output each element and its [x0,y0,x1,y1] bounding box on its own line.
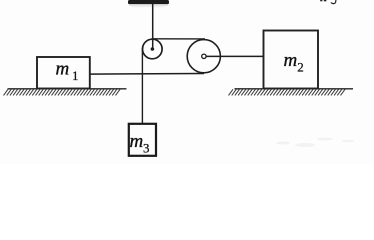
block m1 [37,57,90,89]
ceiling support [128,0,169,7]
text remnant top right [320,0,336,4]
left ground hatching [4,89,121,95]
rope m1 to pulley [90,73,205,76]
right ground hatching [229,89,346,95]
string to m3 [141,49,143,125]
svg-text:m: m [130,131,144,152]
large pulley [187,40,220,73]
svg-text:2: 2 [297,60,304,75]
block m3 [129,124,156,156]
pulley support rod [152,4,154,50]
rope pulley axle to m2 [204,55,264,57]
svg-text:1: 1 [72,68,79,83]
svg-text:m: m [56,59,70,80]
faint smudges bottom right [276,138,354,148]
block m2 [264,31,319,89]
right ground line [235,88,354,90]
svg-text:3: 3 [143,140,150,155]
small pulley axle dot [151,47,155,51]
left ground line [8,88,127,90]
small pulley [143,39,163,59]
svg-text:m: m [284,50,298,71]
string top tangent [152,38,206,40]
large pulley axle ring [202,54,206,58]
